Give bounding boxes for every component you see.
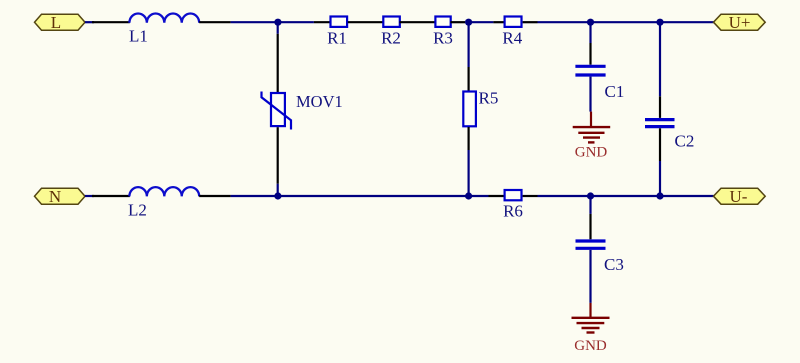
svg-text:L1: L1 <box>129 27 148 46</box>
svg-text:L2: L2 <box>128 201 147 220</box>
label C3 <box>604 255 624 274</box>
wire <box>466 21 493 23</box>
node junction top R5 <box>465 19 472 26</box>
svg-text:GND: GND <box>575 145 608 161</box>
label L1 <box>129 27 148 46</box>
svg-text:R2: R2 <box>381 29 401 48</box>
wire (top rail to U+) <box>538 21 714 23</box>
svg-text:MOV1: MOV1 <box>296 92 343 111</box>
resistor R5 <box>463 92 476 127</box>
wire <box>85 21 94 23</box>
wire (pin lead of R4 left) <box>493 21 504 23</box>
wire (C3 top pin) <box>589 214 591 239</box>
wire (R5 bottom pin) <box>468 127 470 150</box>
resistor R3 <box>435 17 450 27</box>
wire (pin lead of L2 right) <box>199 195 230 197</box>
wire (MOV1 top net) <box>277 22 279 34</box>
wire (C3 bottom net) <box>589 250 591 303</box>
wire (pin lead of R6 left) <box>489 195 505 197</box>
label C2 <box>675 132 695 151</box>
svg-text:GND: GND <box>574 338 607 354</box>
resistor R2 <box>383 17 400 27</box>
wire (R5 bottom net) <box>468 150 470 196</box>
wire (pin lead of R1 left) <box>314 21 330 23</box>
svg-text:R4: R4 <box>502 29 522 48</box>
wire (pin lead of L1 right) <box>199 21 230 23</box>
wire (C1 top pin) <box>589 43 591 65</box>
port N <box>35 187 86 206</box>
label R3 <box>433 29 453 48</box>
wire (pin leads between R2 and R3) <box>400 21 436 23</box>
node junction top C1 <box>587 19 594 26</box>
wire (MOV1 top pin) <box>277 34 279 92</box>
wire (pin lead of L1 left) <box>92 21 130 23</box>
wire (C2 top pin) <box>659 96 661 118</box>
svg-text:N: N <box>49 187 61 206</box>
wire <box>85 195 94 197</box>
wire (C1 bottom net) <box>589 77 591 112</box>
label L2 <box>128 201 147 220</box>
wire (C1 top net) <box>589 22 591 43</box>
port L <box>35 13 86 32</box>
varistor MOV1 <box>262 92 292 130</box>
wire (pin lead of L2 left) <box>92 195 130 197</box>
wire (pin lead of R6 right) <box>523 195 538 197</box>
wire (C2 top net) <box>659 22 661 96</box>
ground GND (C1) <box>573 112 611 143</box>
wire (C2 bottom net) <box>659 161 661 196</box>
label GND (C1) <box>575 145 608 161</box>
svg-text:C1: C1 <box>605 82 625 101</box>
ground GND (C3) <box>572 303 610 333</box>
svg-text:U-: U- <box>730 187 748 206</box>
svg-text:R3: R3 <box>433 29 453 48</box>
node junction bottom MOV1 <box>274 192 281 199</box>
wire (pin leads between R1 and R2) <box>348 21 384 23</box>
svg-text:R6: R6 <box>503 202 523 221</box>
svg-text:C2: C2 <box>675 132 695 151</box>
svg-text:U+: U+ <box>729 13 751 32</box>
inductor L1 <box>129 13 199 22</box>
resistor R4 <box>505 17 522 27</box>
capacitor C2 <box>645 120 675 127</box>
svg-text:R5: R5 <box>479 89 499 108</box>
wire (bottom rail left) <box>231 195 489 197</box>
wire <box>231 21 314 23</box>
capacitor C1 <box>575 66 605 75</box>
node junction bottom C3 <box>587 192 594 199</box>
resistor R6 <box>505 190 522 200</box>
svg-text:L: L <box>51 13 61 32</box>
label R2 <box>381 29 401 48</box>
wire (R5 top net) <box>468 22 470 67</box>
label R6 <box>503 202 523 221</box>
wire (C2 bottom pin) <box>659 128 661 161</box>
node junction bottom C2 <box>656 192 663 199</box>
label GND (C3) <box>574 338 607 354</box>
capacitor C3 <box>576 241 606 248</box>
node junction top C2 <box>656 19 663 26</box>
label R1 <box>327 29 347 48</box>
port U- <box>714 187 766 206</box>
wire (pin lead of R3 right) <box>451 21 466 23</box>
svg-text:C3: C3 <box>604 255 624 274</box>
port U+ <box>714 13 766 32</box>
wire (bottom rail right to U-) <box>538 195 714 197</box>
label MOV1 <box>296 92 343 111</box>
label C1 <box>605 82 625 101</box>
wire (MOV1 bottom net) <box>277 184 279 196</box>
wire (pin lead of R4 right) <box>523 21 538 23</box>
svg-text:R1: R1 <box>327 29 347 48</box>
resistor R1 <box>331 17 348 27</box>
node junction bottom R5 <box>465 192 472 199</box>
wire (R5 top pin) <box>468 67 470 91</box>
label R5 <box>479 89 499 108</box>
wire (MOV1 bottom pin) <box>277 127 279 184</box>
inductor L2 <box>129 187 199 196</box>
label R4 <box>502 29 522 48</box>
node junction top MOV1 <box>274 19 281 26</box>
wire (C3 top net) <box>589 196 591 214</box>
